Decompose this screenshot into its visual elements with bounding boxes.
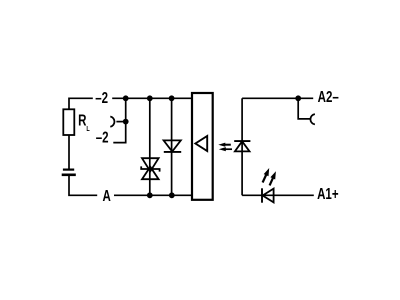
wire: right vertical xyxy=(241,98,243,195)
socket contact arc (right) xyxy=(310,114,314,124)
wire: diode branch xyxy=(171,98,173,195)
status LED triangle xyxy=(263,189,274,203)
wire: TVS suppressor branch xyxy=(149,98,151,195)
socket contact arc (left) xyxy=(110,117,114,127)
label R_L xyxy=(78,110,90,133)
wire: resistor to battery xyxy=(68,135,70,170)
wire: A2- top xyxy=(242,97,313,99)
socket contact lead xyxy=(116,121,125,123)
wire: left loop top (-2 to resistor) xyxy=(69,98,93,109)
node: top bus junction 2 xyxy=(147,95,153,101)
svg-text:A: A xyxy=(102,186,110,204)
wire: test tap xyxy=(298,98,310,119)
node: top bus junction 1 xyxy=(123,95,129,101)
emit arrow 1 xyxy=(263,168,270,183)
resistor R_L xyxy=(63,109,74,135)
light arrow 1 xyxy=(218,143,231,147)
light arrow 2 xyxy=(219,147,232,151)
output block triangle xyxy=(195,136,207,151)
svg-text:A1+: A1+ xyxy=(317,184,338,202)
svg-text:L: L xyxy=(86,125,89,133)
svg-text:A2–: A2– xyxy=(318,87,339,105)
svg-text:–2: –2 xyxy=(95,88,108,106)
wire: A1+ bottom xyxy=(242,194,314,196)
wire: terminal -2 to output block (top bus) xyxy=(112,97,192,99)
svg-text:R: R xyxy=(78,110,86,128)
status LED cathode bar xyxy=(261,188,263,202)
diode D1 triangle xyxy=(164,140,181,151)
TVS zener bar xyxy=(141,166,159,171)
wire: terminal A to output block (bottom bus) xyxy=(114,194,192,196)
emit arrow 2 xyxy=(270,171,276,185)
node: top bus junction 3 xyxy=(169,95,175,101)
node: A2- junction xyxy=(295,95,301,101)
optocoupler LED cathode bar xyxy=(234,140,250,142)
wire: contact branch vertical to -2 mid xyxy=(113,98,125,142)
wire: battery to terminal A xyxy=(69,175,97,196)
svg-text:–2: –2 xyxy=(96,128,109,146)
node: contact junction xyxy=(123,119,129,125)
node: bottom bus junction 1 xyxy=(147,192,153,198)
battery plate bottom xyxy=(62,174,76,177)
output block U1 xyxy=(192,93,213,200)
TVS top triangle xyxy=(142,158,159,171)
battery plate top xyxy=(63,169,74,171)
node: bottom bus junction 2 xyxy=(169,192,175,198)
optocoupler LED triangle xyxy=(235,141,250,151)
TVS bottom triangle xyxy=(142,167,159,179)
diode D1 cathode bar xyxy=(164,151,181,153)
